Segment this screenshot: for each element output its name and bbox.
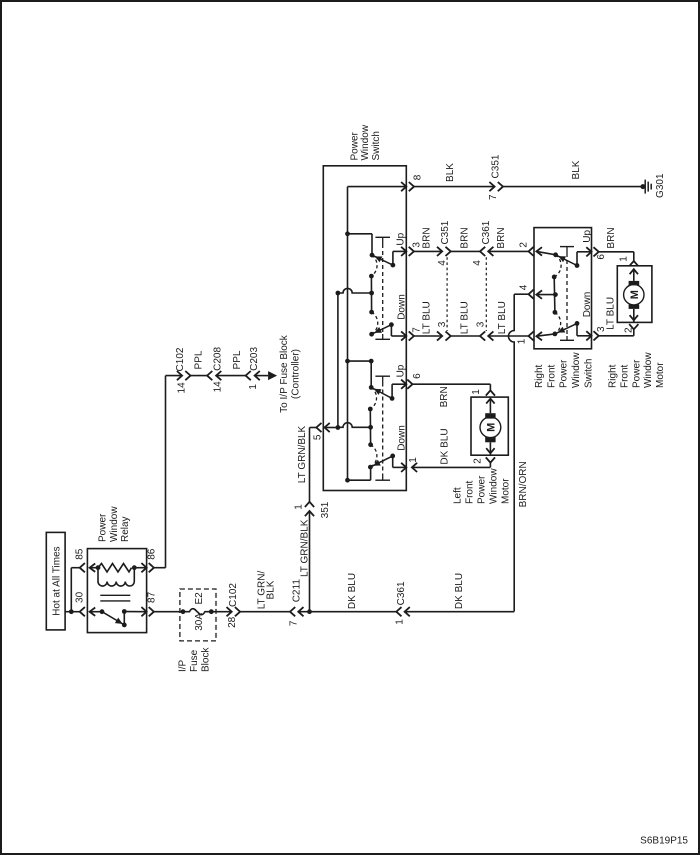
svg-text:Power: Power <box>98 513 109 542</box>
right switch pin 4 internal <box>536 290 542 298</box>
right front power window motor M2 <box>617 266 652 323</box>
svg-text:BLK: BLK <box>266 580 277 599</box>
right front power window switch box <box>534 228 592 349</box>
svg-text:LT BLU: LT BLU <box>422 301 433 334</box>
svg-text:PPL: PPL <box>232 350 243 369</box>
junction feed up-right contact <box>345 359 350 364</box>
svg-text:Switch: Switch <box>584 359 595 388</box>
arrow to I/P fuse block controller <box>255 375 269 377</box>
svg-text:8: 8 <box>412 174 423 180</box>
svg-text:1: 1 <box>619 256 630 262</box>
splice 351 <box>305 511 314 516</box>
wire LT BLU C351 to C361 <box>451 335 480 337</box>
contact chain right front <box>368 407 373 412</box>
svg-text:PPL: PPL <box>193 350 204 369</box>
svg-text:BLK: BLK <box>445 163 456 182</box>
svg-text:6: 6 <box>596 254 607 260</box>
relay coil resistor <box>96 565 101 570</box>
svg-text:4: 4 <box>518 284 529 290</box>
svg-text:C208: C208 <box>213 347 224 371</box>
svg-text:LT GRN/BLK: LT GRN/BLK <box>297 425 308 483</box>
svg-text:86: 86 <box>146 548 157 560</box>
connector C102 pin 14 <box>177 371 182 380</box>
right switch pin 2 internal <box>536 247 542 255</box>
relay pin 87 <box>124 611 146 613</box>
svg-text:To I/P Fuse Block: To I/P Fuse Block <box>279 334 290 413</box>
wire DK BLU master pin 1 to left front motor <box>412 463 417 472</box>
pin 5 wire inside switch with hop <box>338 423 371 428</box>
wire pin 8 inside switch <box>348 186 407 188</box>
wire BRN C351 to C361 <box>451 250 480 252</box>
right switch contact Up (pin 6) <box>553 252 558 257</box>
svg-text:Power: Power <box>631 359 642 388</box>
svg-text:1: 1 <box>248 384 259 390</box>
svg-text:LT GRN/BLK: LT GRN/BLK <box>300 519 311 577</box>
rocker dashed link (left front) <box>382 244 384 334</box>
relay armature link <box>100 594 130 596</box>
connector C351 pin 7 (top) <box>489 182 494 191</box>
svg-text:Power: Power <box>477 475 488 504</box>
svg-text:Up: Up <box>396 364 407 377</box>
svg-text:87: 87 <box>146 591 157 603</box>
junction feed up-left contact <box>345 231 350 236</box>
svg-text:Switch: Switch <box>371 131 382 160</box>
svg-text:LT BLU: LT BLU <box>460 301 471 334</box>
svg-text:BRN: BRN <box>460 227 471 248</box>
switch contact Down (right front, pin 1) <box>368 465 373 470</box>
svg-text:3: 3 <box>437 321 448 327</box>
svg-text:1: 1 <box>294 504 305 510</box>
dashed arc down-left contact <box>372 312 378 334</box>
svg-text:Power: Power <box>349 131 360 160</box>
svg-text:Window: Window <box>571 352 582 388</box>
svg-text:C361: C361 <box>481 220 492 244</box>
right switch pin 1 internal <box>536 332 542 340</box>
svg-text:7: 7 <box>488 194 499 200</box>
svg-text:2: 2 <box>472 458 483 464</box>
svg-text:1: 1 <box>471 389 482 395</box>
svg-text:Window: Window <box>643 352 654 388</box>
wire hot feed to relay pin 30 <box>65 611 80 613</box>
svg-text:C102: C102 <box>228 583 239 607</box>
right switch dashed arc lower <box>555 312 561 334</box>
wire BRN C361 to right switch pin 2 <box>488 250 528 252</box>
svg-text:351: 351 <box>320 501 331 518</box>
wire C211 to junction <box>298 611 309 613</box>
svg-text:Right: Right <box>534 364 545 388</box>
svg-text:M: M <box>629 290 641 299</box>
connector C361 pin 1 (bottom) <box>396 607 401 616</box>
connector C361 pin 3 (down row) <box>480 331 485 340</box>
dashed connector line C361 <box>485 257 487 331</box>
switch contact Down (left front, pin 7) <box>369 332 374 337</box>
relay contact blade <box>100 609 105 614</box>
svg-text:Front: Front <box>619 364 630 388</box>
svg-text:BRN/ORN: BRN/ORN <box>518 461 529 507</box>
switch contact Up (left front, pin 3) <box>370 253 375 258</box>
wire BLK C351 to G301 <box>503 186 643 188</box>
svg-text:Window: Window <box>360 124 371 160</box>
svg-text:G301: G301 <box>655 173 666 198</box>
svg-text:Fuse: Fuse <box>189 649 200 672</box>
svg-text:C203: C203 <box>249 347 260 371</box>
rocker dashed link (right front) <box>382 383 384 475</box>
svg-text:DK BLU: DK BLU <box>454 573 465 609</box>
svg-text:Motor: Motor <box>655 362 666 388</box>
svg-text:I/P: I/P <box>178 659 189 672</box>
svg-text:BRN: BRN <box>422 227 433 248</box>
wire BRN right switch pin 6 to right motor <box>594 247 599 256</box>
connector C351 pin 4 (up row) <box>437 247 442 256</box>
svg-text:C351: C351 <box>440 220 451 244</box>
svg-text:C211: C211 <box>291 579 302 603</box>
svg-text:Right: Right <box>608 364 619 388</box>
svg-text:6: 6 <box>412 373 423 379</box>
wire BRN master pin 3 to C351 <box>409 247 414 256</box>
relay pin 30 <box>80 607 85 616</box>
svg-text:Down: Down <box>582 292 593 318</box>
svg-text:Up: Up <box>582 229 593 242</box>
wire PPL C102 to C208 <box>191 375 208 377</box>
svg-text:BLK: BLK <box>571 160 582 179</box>
connector C102 pin 28 <box>227 607 232 616</box>
connector C203 pin 1 <box>246 371 251 380</box>
svg-text:(Controller): (Controller) <box>291 349 302 399</box>
right switch dashed arc upper <box>554 255 561 277</box>
svg-text:3: 3 <box>475 321 486 327</box>
dashed connector line C351 <box>446 257 448 331</box>
svg-text:DK BLU: DK BLU <box>440 428 451 464</box>
connector C211 pin 7 <box>290 607 295 616</box>
svg-text:Motor: Motor <box>500 478 511 504</box>
relay coil inductor <box>97 568 99 582</box>
power window relay box <box>87 549 146 633</box>
feed wire down-left contact with hop <box>336 291 341 296</box>
wire LT BLU C361 to right switch pin 1 <box>488 335 528 337</box>
svg-text:Block: Block <box>201 647 212 672</box>
svg-text:Front: Front <box>465 480 476 504</box>
wire DK BLU riser to right switch pin 4 (hop over LT BLU) <box>508 294 514 611</box>
svg-text:1: 1 <box>395 619 406 625</box>
svg-text:LT BLU: LT BLU <box>606 297 617 330</box>
wire LT GRN/BLK C102 to C211 <box>240 611 290 613</box>
pin 5 chevron and wire to corner <box>316 423 321 432</box>
wire BLK master switch pin 8 to C351 <box>409 182 414 191</box>
svg-text:Hot at All Times: Hot at All Times <box>52 546 63 615</box>
wire DK BLU junction to C361 <box>310 611 397 613</box>
power source label Hot at All Times <box>46 532 65 630</box>
svg-text:Front: Front <box>546 364 557 388</box>
svg-text:E2: E2 <box>194 592 205 605</box>
svg-text:C102: C102 <box>175 347 186 371</box>
svg-text:LT BLU: LT BLU <box>497 301 508 334</box>
wire LT GRN/BLK junction up to splice 351 <box>309 511 311 612</box>
contact chain left front <box>369 274 374 279</box>
svg-text:1: 1 <box>517 338 528 344</box>
svg-text:Down: Down <box>396 425 407 451</box>
wire fuse to C102 <box>211 611 231 613</box>
connector C208 pin 14 <box>207 371 212 380</box>
svg-text:85: 85 <box>74 548 85 560</box>
dashed arc down-right contact <box>370 445 377 467</box>
svg-text:Left: Left <box>453 487 464 504</box>
right switch contact Down (pin 3) <box>553 332 558 337</box>
svg-text:C361: C361 <box>396 581 407 605</box>
svg-text:Up: Up <box>396 232 407 245</box>
svg-text:28: 28 <box>227 616 238 628</box>
svg-text:30A: 30A <box>194 613 205 631</box>
connector C361 pin 4 (up row) <box>480 247 485 256</box>
svg-text:C351: C351 <box>491 154 502 178</box>
svg-text:Relay: Relay <box>120 516 131 542</box>
ground G301 <box>640 184 645 189</box>
dashed arc up-right contact <box>370 387 376 409</box>
wire PPL C208 to C203 <box>216 375 246 377</box>
dashed arc up-left contact <box>371 255 377 276</box>
wire LT BLU master pin 7 to C351 <box>409 331 414 340</box>
right switch rocker dashed link <box>566 253 568 336</box>
left rail inside master switch <box>337 293 339 428</box>
svg-text:Window: Window <box>109 506 120 542</box>
wire BRN master pin 6 to left front motor <box>407 380 412 389</box>
svg-text:Window: Window <box>488 468 499 504</box>
svg-text:30: 30 <box>74 591 85 603</box>
svg-text:5: 5 <box>313 434 324 440</box>
connector C351 pin 3 (down row) <box>437 331 442 340</box>
switch contact Up (right front, pin 6) <box>369 385 374 390</box>
svg-text:2: 2 <box>518 242 529 248</box>
svg-text:DK BLU: DK BLU <box>347 573 358 609</box>
svg-text:14: 14 <box>176 382 187 394</box>
wire LT BLU right switch pin 3 to right motor pin 2 <box>594 331 599 340</box>
wire branch to relay pin 85 <box>70 568 72 612</box>
power window switch (master) box <box>323 166 406 491</box>
svg-text:14: 14 <box>213 381 224 393</box>
svg-text:7: 7 <box>288 620 299 626</box>
svg-text:Down: Down <box>396 294 407 320</box>
svg-text:S6B19P15: S6B19P15 <box>640 836 688 847</box>
wire DK BLU C361 to riser corner <box>405 611 515 613</box>
svg-text:M: M <box>486 423 498 432</box>
relay pin 86 <box>134 567 146 569</box>
wire relay 87 to fuse block <box>154 611 183 613</box>
svg-text:BRN: BRN <box>606 227 617 248</box>
svg-text:1: 1 <box>408 457 419 463</box>
right switch contact chain <box>552 275 557 280</box>
svg-text:BRN: BRN <box>496 227 507 248</box>
svg-text:4: 4 <box>472 260 483 266</box>
left front power window motor M1 <box>471 397 508 455</box>
relay pin 85 <box>80 563 85 572</box>
svg-text:BRN: BRN <box>439 386 450 407</box>
fuse 30A E2 <box>181 609 186 614</box>
wire relay pin 86 up to PPL branch <box>154 567 166 569</box>
bottom feed wire right contact <box>345 478 350 483</box>
feed rail inside master switch <box>347 187 349 481</box>
svg-text:Power: Power <box>559 359 570 388</box>
wire LT GRN/BLK splice to switch pin 5 <box>309 428 311 502</box>
I/P fuse block dashed box <box>180 589 216 641</box>
